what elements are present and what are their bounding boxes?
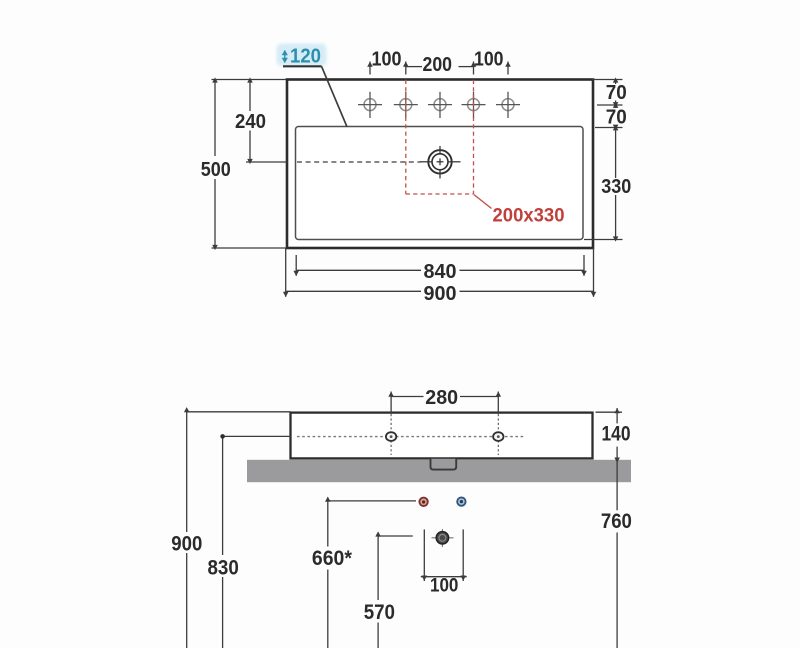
svg-text:240: 240 xyxy=(235,111,266,133)
red template rectangle 200x330 xyxy=(406,80,474,194)
washbasin body (front view) xyxy=(291,413,593,459)
svg-text:500: 500 xyxy=(201,159,231,181)
svg-text:280: 280 xyxy=(425,387,458,409)
mounting holes centerline xyxy=(297,436,524,438)
svg-text:120: 120 xyxy=(290,46,321,68)
dimension 660* xyxy=(328,501,416,648)
cold water supply point xyxy=(457,497,465,505)
label 120 leader xyxy=(322,66,348,127)
dimension 840 (bottom) xyxy=(296,255,584,276)
dimension 100 (waste offset) xyxy=(421,529,467,581)
svg-text:100: 100 xyxy=(430,576,458,597)
svg-text:200: 200 xyxy=(423,54,453,76)
dimension 830 xyxy=(223,436,291,648)
faucet hole 2 xyxy=(394,92,418,118)
dimension 900 (bottom) xyxy=(286,248,594,297)
dimension 280 xyxy=(391,392,498,414)
dimension 900 (front, floor height) xyxy=(187,412,291,648)
dimension 140 / 760 (right) xyxy=(596,408,623,648)
faucet hole 4 xyxy=(462,92,486,118)
dimension 70-70-330 (right side) xyxy=(584,80,623,240)
drain (top view) xyxy=(420,146,461,179)
dimension 570 xyxy=(378,536,413,648)
wall band xyxy=(247,460,631,482)
dimension 100-200-100 (top) xyxy=(370,62,508,75)
svg-text:70: 70 xyxy=(606,107,627,129)
faucet hole 5 xyxy=(496,92,520,118)
basin inner edge xyxy=(296,127,584,240)
mounting hole right xyxy=(493,414,503,455)
siphon cover outline xyxy=(431,459,457,470)
svg-text:330: 330 xyxy=(601,176,631,198)
svg-text:900: 900 xyxy=(171,533,202,556)
svg-text:840: 840 xyxy=(424,261,457,283)
label 120 underline xyxy=(283,65,322,67)
svg-text:200x330: 200x330 xyxy=(493,205,565,226)
mounting hole left xyxy=(386,414,396,455)
svg-text:830: 830 xyxy=(208,557,239,580)
svg-text:70: 70 xyxy=(606,82,627,104)
svg-text:100: 100 xyxy=(474,48,504,70)
svg-text:140: 140 xyxy=(602,423,631,446)
svg-text:100: 100 xyxy=(372,48,402,70)
svg-text:570: 570 xyxy=(364,601,395,624)
hot water supply point xyxy=(419,498,427,506)
dimension 500 (left) xyxy=(212,80,287,249)
svg-text:760: 760 xyxy=(601,510,632,533)
depth arrow glyph xyxy=(282,50,288,63)
red leader line xyxy=(474,195,492,209)
basin centerline dashed xyxy=(297,161,421,163)
svg-text:660*: 660* xyxy=(312,547,353,570)
faucet hole 1 xyxy=(358,92,382,118)
dimension 240 (left inner) xyxy=(246,80,288,163)
waste outlet xyxy=(432,529,454,547)
faucet hole 3 xyxy=(428,92,452,118)
svg-text:900: 900 xyxy=(424,283,457,305)
washbasin outer rim (top view) xyxy=(287,80,593,249)
